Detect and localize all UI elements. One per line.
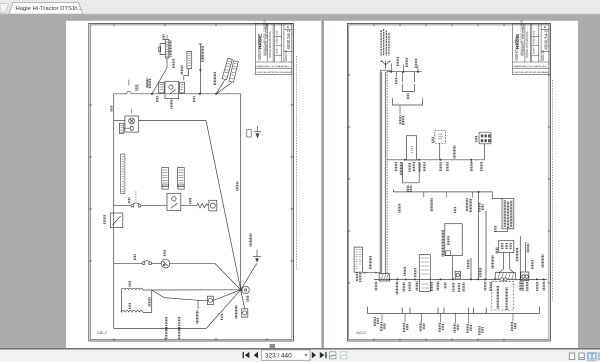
sheet number 24G-2: [356, 331, 366, 335]
drop wire d3: [421, 313, 423, 322]
wire supply box to bus: [363, 272, 381, 274]
label wire 150: [189, 198, 191, 203]
accessory row wire: [114, 263, 241, 290]
toolbar: [0, 350, 600, 362]
svg-text:DRAWN REB 7-8-13 HAGIE MFG: DRAWN REB 7-8-13 HAGIE MFG: [256, 65, 289, 68]
vertical feeder at x486: [485, 211, 487, 279]
junction lower k: [536, 278, 538, 280]
label E1: [163, 251, 165, 256]
relay K1 socket right pins: [180, 82, 185, 93]
label below row2 end b: [480, 162, 482, 170]
wire node B1 to flag F2: [216, 83, 231, 94]
control unit A3: [499, 241, 514, 253]
label d0: [374, 318, 379, 326]
junction row2 c: [440, 159, 442, 161]
svg-text:DWG NO: DWG NO: [541, 50, 545, 61]
label wire 100: [135, 86, 137, 91]
stub below bracket J1: [399, 105, 401, 115]
wire A4 to lower bus: [452, 256, 454, 280]
labels below flasher: [521, 282, 528, 290]
label 2e: [418, 163, 420, 171]
two-page mode icon (selected): [587, 352, 597, 360]
label IGN: [162, 35, 164, 40]
label lw b: [396, 282, 398, 294]
jumper loop below row2: [403, 162, 420, 183]
star junction node G: [239, 288, 242, 291]
junction row2 d: [470, 159, 472, 161]
svg-text:DRAWN REB 7-8-13 HAGIE MFG: DRAWN REB 7-8-13 HAGIE MFG: [513, 65, 546, 68]
svg-text:SCALE: SCALE: [276, 36, 279, 44]
label 2b: [400, 163, 402, 175]
wire cross link: [494, 231, 508, 233]
wire X1 to row2: [484, 144, 486, 160]
main lower wire: [374, 278, 547, 280]
relay K2 pin 86: [178, 185, 184, 189]
label d5: [453, 324, 459, 332]
label L1: [129, 281, 131, 286]
label HYDRAULIC VALVE HARNESS: [121, 154, 125, 194]
labels below main wire right part: [484, 282, 545, 291]
label left of A2: [432, 138, 434, 143]
label wire 103: [146, 79, 151, 88]
title block left: [255, 24, 291, 75]
wire node B1 to flag F1: [216, 80, 224, 94]
left feeder wire (vertical): [113, 121, 115, 264]
ground bus row 3: [393, 190, 475, 192]
junction lower j: [519, 278, 521, 280]
wire lamp DS2 to star: [214, 290, 241, 301]
continuous mode icon: [579, 353, 584, 360]
label relay K3: [103, 215, 105, 223]
sheet number 24E-2: [97, 331, 107, 335]
junction bottom bus B: [178, 327, 181, 330]
svg-text:SCHEMATIC, CAB POWER: SCHEMATIC, CAB POWER: [264, 23, 268, 56]
label d6: [466, 325, 472, 333]
stub wire row1 up a: [390, 64, 392, 72]
svg-text:Hagie Hi-Tractor DTS1....: Hagie Hi-Tractor DTS1....: [16, 6, 83, 12]
flasher unit B2 (two circles): [521, 272, 529, 281]
label right column a: [541, 255, 543, 267]
tab bar: [0, 0, 600, 15]
label wire 210: [453, 146, 455, 158]
copyright note (vertical fine print, right margin): [552, 80, 554, 302]
junction lower a: [389, 278, 391, 280]
feed wire row 2: [387, 159, 485, 161]
coil L2: [122, 311, 144, 313]
wire ignition switch to key bus: [152, 58, 167, 94]
label ignition pins: [169, 41, 171, 56]
left page sheet: [66, 21, 322, 348]
single page mode icon: [569, 353, 574, 360]
label pin 2: [246, 296, 248, 301]
labels below main lower wire: [375, 282, 377, 290]
label below row1 a: [395, 79, 397, 84]
label below row2 end a: [470, 160, 472, 164]
vertical feeder at x478: [478, 192, 480, 280]
jumper loop wire below row1: [402, 72, 414, 92]
pin number 30: [156, 97, 158, 102]
fused feed flag F1 (slanted): [222, 58, 232, 79]
supply label box (left): [354, 247, 362, 272]
label wire 310: [148, 298, 150, 306]
module A2 (dashed diagnostic): [435, 131, 446, 144]
label inside A5 col1: [504, 201, 506, 227]
bus bar end terminal (hatched): [379, 274, 389, 282]
pin number 87: [193, 97, 195, 102]
label splice A: [165, 317, 167, 338]
label row1 c: [415, 60, 417, 68]
svg-text:24E-2: 24E-2: [97, 331, 107, 335]
label wire 501: [369, 257, 371, 269]
coil left link wire: [121, 290, 123, 312]
frame zone ticks: [347, 24, 550, 342]
breaker feed wire row: [114, 205, 197, 207]
coil L1: [122, 288, 144, 290]
label on diagonal: [221, 315, 223, 320]
label 2i: [470, 163, 472, 171]
wire feed to flasher: [525, 242, 527, 272]
label inside A3: [501, 244, 512, 249]
stub wire row1 up c: [417, 65, 419, 72]
label lw c: [403, 283, 405, 291]
relay K2: [167, 193, 181, 210]
junction key bus / accessory: [199, 93, 201, 95]
label relay K1 START RELAY: [170, 100, 172, 108]
label left of wire b: [491, 256, 493, 268]
frame zone ticks: [89, 23, 294, 341]
left feeder lower segment: [114, 263, 207, 328]
title block right: [513, 24, 550, 75]
stub wire row1 up b: [403, 65, 405, 72]
label A4 (vertical text): [442, 230, 444, 256]
label wire 112: [214, 73, 216, 85]
label stack row3 e: [466, 199, 472, 212]
svg-text:4590.54-2: 4590.54-2: [286, 29, 291, 49]
label cross link: [494, 227, 496, 232]
label (+) sense: [236, 182, 238, 190]
wire accessory feed (vertical at x=200): [198, 44, 202, 94]
label X1: [475, 137, 477, 142]
relay K2 pin 85: [162, 185, 168, 189]
junction key bus / ignition: [151, 93, 153, 95]
fused feed flag F2 (slanted): [229, 61, 238, 82]
label inside harness a: [497, 286, 499, 308]
plug pins circles: [500, 278, 507, 281]
label row3 c: [454, 208, 456, 213]
resistor R1: [197, 204, 208, 208]
svg-text:×: ×: [74, 5, 78, 12]
sheet frame (outer border): [89, 23, 294, 341]
svg-text:SIZE: SIZE: [534, 30, 536, 35]
label d2: [403, 324, 409, 332]
drop wire d1: [381, 313, 383, 321]
junction lower c: [405, 278, 407, 280]
junction lower d: [414, 278, 416, 280]
label flasher feed: [527, 244, 529, 252]
svg-text:323 / 440: 323 / 440: [265, 353, 292, 360]
battery bus wire: [114, 92, 241, 121]
title block right texts: [513, 19, 549, 74]
svg-text:CLARION, IOWA 50525: CLARION, IOWA 50525: [259, 36, 262, 60]
wire coil diag to lamp: [164, 298, 198, 301]
svg-text:A: A: [544, 26, 547, 30]
splice arrow b: [375, 272, 377, 274]
connector block X2 (tall, crosses wire): [419, 255, 430, 292]
label motor stub: [131, 109, 133, 113]
note text block (top): [381, 29, 389, 56]
label wire 201: [172, 60, 174, 68]
label 2c: [408, 163, 410, 171]
net flag SPEED SIGNAL: [162, 168, 169, 187]
junction row1 c: [417, 71, 419, 73]
label ACC: [181, 66, 183, 74]
wire stub above hop: [128, 80, 130, 86]
label flag star harness: [235, 306, 237, 318]
label row3 a: [398, 204, 400, 212]
control module A4: [445, 224, 462, 256]
harness boundary (dashed box): [492, 281, 514, 310]
svg-text:POWER DISTRIBUTION: POWER DISTRIBUTION: [269, 31, 272, 58]
stub row3 c: [471, 192, 473, 197]
label inside A5 col2: [507, 202, 509, 228]
junction row1 a: [390, 71, 392, 73]
stub wire row1 down a: [395, 72, 397, 78]
vertical feeder at x520: [519, 236, 521, 279]
svg-text:SHEET: SHEET: [534, 46, 536, 54]
label inside A5 col3: [510, 201, 512, 227]
labels below sensor: [452, 283, 465, 292]
wire feeder x471: [470, 258, 472, 279]
copyright note (vertical fine print, right margin): [296, 56, 298, 270]
next page button: [312, 352, 316, 359]
svg-text:A: A: [287, 26, 290, 30]
svg-text:24G-2: 24G-2: [356, 331, 366, 335]
thermal link dashes: [135, 191, 137, 200]
label row1 a: [397, 58, 399, 66]
return wire to star node (long diagonal): [206, 121, 241, 290]
wire star to lamp DS3: [241, 290, 245, 309]
label stem: [516, 248, 518, 260]
bottom bus to star diagonal: [206, 290, 240, 329]
connector block X1 (grid): [479, 132, 491, 144]
page number box: [262, 350, 311, 360]
drop wire d4: [440, 313, 442, 322]
junction lower f: [452, 278, 454, 280]
label left of A3: [496, 248, 498, 253]
label CB2: [134, 255, 136, 260]
label row3 d: [478, 203, 484, 211]
drop wire d5: [455, 313, 457, 323]
relay K1: [165, 81, 179, 98]
wire A5 down: [507, 229, 509, 232]
wire coils to star node: [152, 289, 241, 291]
last page button: [320, 352, 325, 358]
net flag BATTERY PWR: [187, 51, 192, 68]
label above wire w1: [404, 267, 406, 275]
coil right link wire: [143, 290, 152, 312]
connector motor plug P3: [119, 123, 123, 134]
wire plug to motor: [124, 127, 130, 129]
label ground G2: [247, 130, 251, 137]
label row1 b: [406, 59, 408, 67]
inline connector on accessory feed: [199, 69, 202, 72]
sheet frame (outer border): [347, 24, 550, 342]
circuit breaker CB1: [131, 203, 141, 207]
junction box A5 (tall): [502, 198, 514, 228]
label lw d: [408, 282, 410, 290]
connector X3 (hatched): [495, 273, 515, 280]
page divider line: [321, 21, 324, 348]
label below supply box: [356, 273, 362, 282]
prev view icon: [330, 352, 336, 359]
label inside harness b: [505, 288, 507, 310]
next view icon (disabled): [340, 352, 346, 359]
label L2: [129, 304, 131, 309]
gauge / power outlet E1: [161, 259, 170, 268]
label jumper: [407, 94, 409, 99]
right page sheet: [324, 21, 578, 348]
label lw f: [430, 283, 432, 291]
label d7: [511, 322, 517, 330]
stub row3 a: [423, 192, 425, 197]
module A1 (keypad): [407, 136, 417, 160]
label wire 140: [110, 106, 112, 111]
junction lower l: [543, 278, 545, 280]
ignition switch top stub wire: [166, 35, 168, 40]
drop wire d2: [404, 313, 406, 322]
junction lower b: [396, 278, 398, 280]
label lw e: [416, 282, 418, 290]
label left of wire a: [479, 268, 481, 276]
A3 stem wires: [499, 253, 514, 273]
junction row2 a: [404, 159, 406, 161]
first page button: [243, 352, 244, 358]
ignition switch S1: [158, 39, 168, 58]
stub row3 b: [446, 192, 448, 197]
wire net flag to relay: [184, 69, 189, 81]
pump motor M1: [125, 116, 139, 132]
lamp DS3: [242, 309, 248, 317]
label 2h: [446, 163, 448, 171]
label row3 b: [430, 199, 432, 211]
junction lower i: [494, 278, 496, 280]
relay K1 socket left pins: [159, 82, 164, 93]
note text small: [399, 116, 404, 125]
motor feed wire: [114, 120, 206, 122]
label loop J: [407, 186, 412, 191]
label lw h: [444, 283, 446, 288]
label wire 154 KEYED POWER: [201, 46, 203, 61]
label splice B: [178, 317, 180, 338]
junction bottom bus A: [165, 327, 168, 330]
bottom distribution bracket: [368, 307, 540, 314]
label above wire w2: [414, 269, 416, 277]
warning lamp DS2: [207, 296, 213, 304]
splice arrow a: [364, 272, 366, 274]
svg-text:4590.54-2: 4590.54-2: [543, 29, 548, 49]
label wire 010: [249, 234, 251, 246]
label 2g: [439, 163, 441, 171]
junction node B1: [215, 93, 217, 95]
wire row3 to junction box: [475, 192, 502, 199]
wire stub labels on bus: [138, 81, 147, 91]
chassis ground G1: [253, 250, 261, 263]
title block left texts: [256, 19, 292, 74]
svg-text:CLARION, IOWA 50525: CLARION, IOWA 50525: [516, 36, 519, 60]
bottom edge line above toolbar: [0, 348, 600, 350]
svg-text:DWG NO: DWG NO: [284, 50, 288, 61]
chassis ground G2 (upper right): [254, 126, 261, 139]
feed wire row 1: [387, 71, 422, 73]
junction row1 b: [403, 71, 405, 73]
label CB1: [128, 198, 130, 203]
drop wire d7: [512, 313, 514, 321]
label inside A4: [447, 237, 449, 245]
label d3: [419, 323, 425, 331]
svg-text:SHEET: SHEET: [277, 46, 279, 54]
label right column b: [531, 261, 533, 269]
label 2d: [413, 163, 415, 171]
connector bracket J1: [392, 98, 422, 105]
relay K3 (on left feeder): [110, 213, 122, 228]
label lw g: [437, 282, 439, 290]
junction lower h: [484, 278, 486, 280]
circuit breaker CB2: [142, 261, 151, 265]
label feeder x471: [467, 260, 469, 268]
wire coil tap diagonal: [152, 290, 164, 298]
net flag COIL SUPPLY: [178, 168, 185, 187]
svg-text:SIZE: SIZE: [277, 30, 279, 35]
junction lower g: [477, 278, 479, 280]
indicator lamp DS1: [209, 200, 217, 211]
power distribution bus bar: [380, 72, 387, 274]
wire star to chassis ground: [241, 263, 257, 289]
svg-text:SCALE: SCALE: [533, 36, 536, 44]
drop wire d6: [468, 313, 470, 323]
svg-text:POWER DISTRIBUTION: POWER DISTRIBUTION: [526, 31, 529, 58]
junction row3 / feeder: [478, 191, 480, 193]
svg-text:CHECKED APPROVED RELEASED: CHECKED APPROVED RELEASED: [513, 71, 549, 74]
wire lamp DS2 feed: [198, 300, 207, 309]
svg-text:SCHEMATIC, CAB POWER: SCHEMATIC, CAB POWER: [521, 23, 525, 56]
sensor B1 (circle in box): [455, 271, 460, 279]
prev page button: [254, 352, 258, 359]
battery feed symbol (funnel): [380, 61, 391, 72]
label d1: [380, 323, 385, 331]
bulkhead connector ring: [242, 286, 249, 293]
wire module A2 drop: [439, 143, 441, 160]
junction lower e: [440, 278, 442, 280]
label d4: [438, 324, 444, 332]
label 2f: [423, 163, 425, 171]
svg-text:CHECKED APPROVED RELEASED: CHECKED APPROVED RELEASED: [256, 71, 292, 74]
junction feeder x471: [470, 278, 472, 280]
labels below row2: [395, 163, 397, 171]
label d6b: [478, 327, 483, 335]
right bus wire (vertical): [240, 94, 242, 290]
divider grip notch: [270, 344, 276, 348]
junction row2 b: [418, 159, 420, 161]
label flag below DS2: [196, 311, 198, 323]
